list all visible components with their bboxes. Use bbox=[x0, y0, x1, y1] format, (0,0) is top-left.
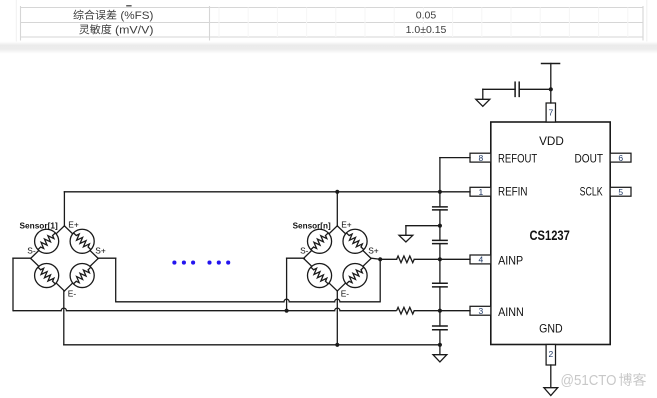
wire AINP left segment bbox=[380, 258, 396, 260]
svg-text:REFOUT: REFOUT bbox=[498, 152, 538, 166]
svg-text:S-: S- bbox=[27, 246, 36, 256]
capacitor C1 (REFIN) bbox=[433, 207, 447, 210]
svg-text:Sensor[n]: Sensor[n] bbox=[293, 220, 331, 230]
svg-text:2: 2 bbox=[549, 349, 554, 359]
wire S+ sensor1 stub bbox=[98, 258, 115, 302]
svg-text:GND: GND bbox=[539, 321, 563, 335]
divider band bbox=[0, 42, 657, 54]
svg-text:S-: S- bbox=[300, 246, 309, 256]
svg-text:(mV/V): (mV/V) bbox=[115, 24, 154, 36]
node bus to rail bbox=[438, 190, 442, 194]
pin 1 REFIN box bbox=[470, 187, 491, 197]
svg-text:DOUT: DOUT bbox=[575, 152, 604, 166]
svg-text:E+: E+ bbox=[341, 220, 352, 230]
node bus on ground rail bbox=[438, 343, 442, 347]
capacitor C3 (AINP-AINN) bbox=[433, 283, 447, 287]
wire S+ chain horizontal with hops bbox=[116, 299, 381, 302]
node S- sensor n joins AINN line bbox=[285, 309, 289, 313]
pin 2 GND box bbox=[546, 345, 555, 366]
wire AINN right segment bbox=[414, 310, 470, 312]
svg-text:AINP: AINP bbox=[498, 254, 523, 268]
svg-text:7: 7 bbox=[549, 108, 554, 118]
node bus-gnd tap bbox=[438, 224, 442, 228]
wire S+ sensor n to AINP junction bbox=[371, 258, 380, 259]
svg-text:AINN: AINN bbox=[498, 305, 524, 319]
wire E+ stub sensor n bbox=[336, 192, 338, 226]
pin 3 AINN box bbox=[470, 306, 491, 316]
IC U1 CS1237 body bbox=[491, 122, 610, 345]
wire E+ stub sensor 1 bbox=[63, 192, 65, 226]
pin 4 AINP box bbox=[470, 255, 491, 265]
svg-text:CS1237: CS1237 bbox=[530, 227, 570, 243]
node E+ sensor n to rail bbox=[335, 190, 339, 194]
node AINP at bus bbox=[438, 257, 442, 261]
wire S- sensor n down bbox=[287, 258, 305, 311]
svg-text:VDD: VDD bbox=[539, 134, 564, 148]
spec table bbox=[16, 0, 647, 42]
wire VDD bar to pin7 bbox=[550, 64, 552, 104]
wire capacitor C5 to ground bbox=[483, 89, 515, 99]
svg-text:0.05: 0.05 bbox=[416, 10, 437, 22]
svg-text:1.0±0.15: 1.0±0.15 bbox=[406, 24, 447, 36]
ground G1 bbox=[476, 99, 490, 106]
svg-text:SCLK: SCLK bbox=[580, 185, 603, 199]
node AINN at bus bbox=[438, 309, 442, 313]
watermark bbox=[561, 372, 647, 389]
svg-text:REFIN: REFIN bbox=[498, 185, 528, 199]
pin 8 REFOUT box bbox=[470, 153, 491, 163]
node AINP junction (S+ bus) bbox=[378, 257, 382, 261]
wire REFOUT pin8 to bus bbox=[440, 157, 470, 159]
resistor R1 (AINP) bbox=[397, 256, 415, 263]
wire AINN line (S- net) with hops bbox=[13, 308, 397, 311]
ground G4 (pin2) bbox=[544, 388, 558, 396]
capacitor C4 (AINN lower) bbox=[433, 326, 447, 330]
svg-text:E-: E- bbox=[68, 288, 77, 298]
VDD power rail bar bbox=[542, 63, 560, 65]
svg-text:@51CTO: @51CTO bbox=[561, 372, 617, 389]
node VDD junction bbox=[549, 87, 553, 91]
svg-text:S+: S+ bbox=[368, 246, 379, 256]
wire ground rail bbox=[64, 344, 440, 346]
svg-text:S+: S+ bbox=[95, 246, 106, 256]
svg-text:8: 8 bbox=[479, 153, 484, 163]
svg-text:(%FS): (%FS) bbox=[120, 10, 153, 22]
svg-text:4: 4 bbox=[479, 255, 484, 265]
ground G3 (bus bottom) bbox=[433, 355, 447, 362]
pin 7 VDD box bbox=[546, 103, 555, 122]
bridge sensor 1 bbox=[31, 226, 99, 291]
wire pin2 to ground bbox=[550, 365, 552, 388]
wire VDD to capacitor C5 bbox=[519, 88, 551, 90]
svg-text:3: 3 bbox=[479, 306, 484, 316]
wire E- sensor1 down bbox=[63, 291, 65, 345]
wire gnd tap bbox=[406, 226, 440, 236]
wire E- sensor n down bbox=[336, 291, 338, 345]
svg-text:E-: E- bbox=[341, 288, 350, 298]
wire bus vertical segments bbox=[439, 158, 441, 355]
svg-text:5: 5 bbox=[618, 187, 623, 197]
svg-text:E+: E+ bbox=[68, 220, 79, 230]
svg-text:6: 6 bbox=[618, 153, 623, 163]
resistor R2 (AINN) bbox=[397, 307, 415, 314]
pin 6 DOUT box bbox=[610, 153, 631, 163]
svg-text:1: 1 bbox=[479, 187, 484, 197]
node E- sensor n on ground rail bbox=[335, 343, 339, 347]
wire S+ chain up to AINP junction bbox=[379, 259, 381, 302]
capacitor C2 (AINP upper) bbox=[433, 240, 447, 243]
pin 5 SCLK box bbox=[610, 187, 631, 197]
wire AINP right segment bbox=[414, 258, 470, 260]
svg-text:Sensor[1]: Sensor[1] bbox=[20, 220, 58, 230]
bridge sensor n bbox=[304, 226, 372, 291]
ellipsis dots between sensors bbox=[172, 261, 230, 265]
wire S- sensor1 to AINN line bbox=[13, 258, 31, 311]
ground G2 bbox=[399, 235, 413, 242]
capacitor C5 (VDD decoupling) bbox=[515, 82, 519, 96]
wire REFIN rail bbox=[64, 191, 470, 193]
